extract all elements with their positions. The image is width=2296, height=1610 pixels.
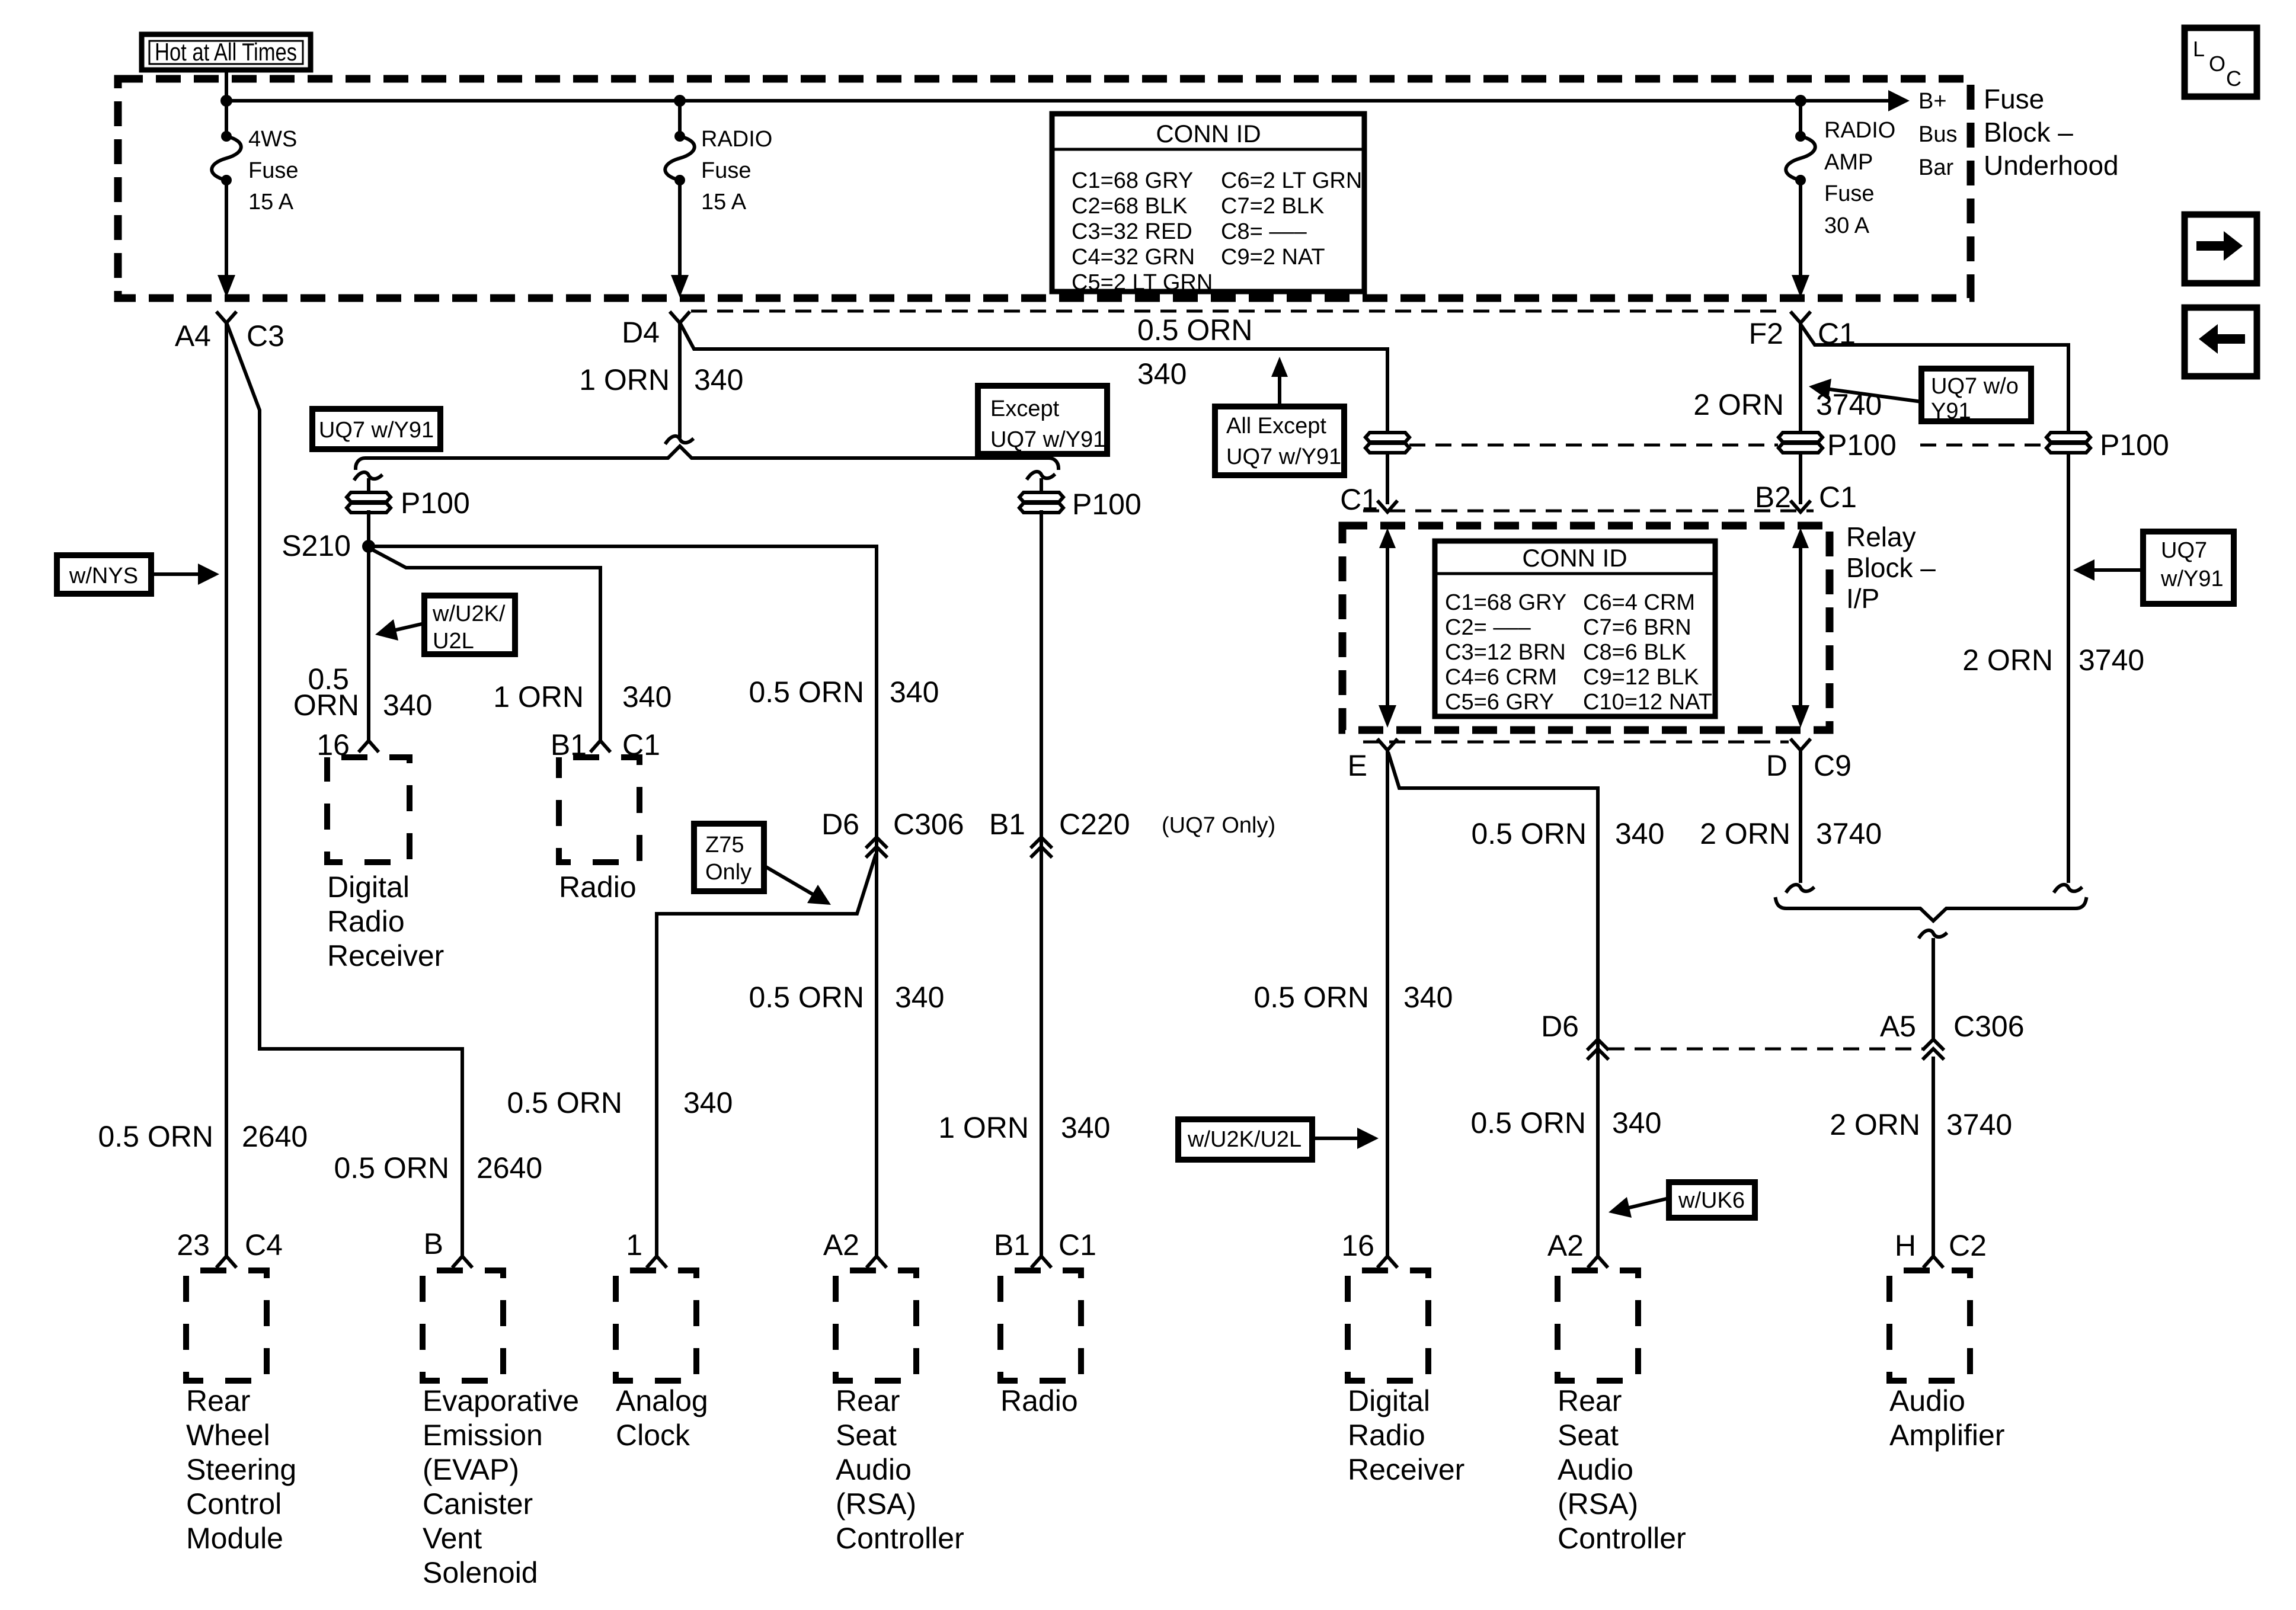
- svg-text:P100: P100: [2100, 428, 2169, 462]
- component Digital Radio Receiver right: [1348, 1270, 1464, 1486]
- label 340 under wire: [1137, 357, 1187, 391]
- left arrow reference box: [2185, 308, 2257, 376]
- svg-text:C7=2 BLK: C7=2 BLK: [1221, 194, 1324, 219]
- connector pin 23 C4 RWS: [177, 1228, 283, 1266]
- connector face line relay bottom: [1363, 741, 1789, 744]
- wire P100 to Radio B1 C220: [1040, 512, 1043, 1255]
- svg-text:D6: D6: [821, 808, 859, 841]
- svg-text:3740: 3740: [1946, 1108, 2012, 1141]
- fuse RADIO 15A: [665, 101, 695, 297]
- option box Except UQ7 w/Y91: [978, 386, 1107, 454]
- svg-text:C9: C9: [1814, 749, 1851, 782]
- svg-text:2 ORN: 2 ORN: [1962, 644, 2053, 677]
- connector P100 grommet mid: [1019, 488, 1141, 521]
- label 1 ORN 340: [579, 363, 743, 396]
- svg-text:C6=4 CRM: C6=4 CRM: [1583, 590, 1695, 615]
- label 0.5 ORN 340 below D6: [749, 981, 944, 1014]
- wire E branch to RSA right 340: [1389, 754, 1598, 1255]
- label 0.5 ORN 340 below D6 right: [1470, 1106, 1661, 1140]
- svg-text:340: 340: [1061, 1111, 1110, 1144]
- connector pin B EVAP: [424, 1227, 471, 1266]
- label 2 ORN 3740 F2: [1693, 388, 1882, 421]
- svg-text:340: 340: [1137, 357, 1187, 391]
- svg-text:C2=68 BLK: C2=68 BLK: [1072, 194, 1187, 219]
- svg-text:0.5 ORN: 0.5 ORN: [1471, 817, 1587, 850]
- svg-text:1 ORN: 1 ORN: [493, 680, 584, 713]
- connector P100 grommet right: [1779, 428, 1897, 462]
- label 4WS Fuse 15 A: [248, 127, 298, 215]
- connector face line fuse block C1: [691, 310, 1785, 313]
- svg-text:Vent: Vent: [423, 1522, 482, 1555]
- svg-text:340: 340: [895, 981, 944, 1014]
- svg-text:C306: C306: [1953, 1010, 2025, 1043]
- svg-text:Except: Except: [990, 396, 1060, 421]
- component Rear Wheel Steering Control Module: [186, 1270, 296, 1555]
- svg-text:P100: P100: [1072, 488, 1141, 521]
- connector pin B1 C1 radio bottom: [994, 1228, 1096, 1266]
- component Evaporative Emission EVAP Canister Vent Solenoid: [423, 1270, 579, 1589]
- label 0.5 ORN 340 above D6: [749, 676, 939, 709]
- svg-text:O: O: [2209, 52, 2225, 76]
- svg-text:C3: C3: [247, 319, 284, 353]
- svg-text:P100: P100: [401, 486, 470, 520]
- node bus junction RADIO: [674, 95, 686, 107]
- svg-text:0.5 ORN: 0.5 ORN: [1253, 981, 1369, 1014]
- option box UQ7 w/Y91 left: [312, 409, 440, 449]
- svg-text:C2: C2: [1949, 1229, 1987, 1262]
- svg-text:Radio: Radio: [559, 870, 637, 904]
- bulkhead dashed link D6 to A5: [1609, 1048, 1923, 1051]
- svg-text:P100: P100: [1827, 428, 1897, 462]
- svg-text:UQ7 w/Y91: UQ7 w/Y91: [319, 418, 434, 443]
- svg-text:A2: A2: [823, 1228, 859, 1262]
- svg-text:1 ORN: 1 ORN: [938, 1111, 1029, 1144]
- option box UQ7 w/o Y91: [1809, 369, 2031, 424]
- svg-text:C4: C4: [245, 1228, 283, 1262]
- connector pin H C2 audio amplifier: [1895, 1229, 1987, 1266]
- svg-text:All Except: All Except: [1226, 414, 1326, 438]
- svg-text:0.5 ORN: 0.5 ORN: [98, 1120, 213, 1153]
- connector P100 grommet far right: [2046, 428, 2169, 462]
- relay block IP dashed box: [1342, 526, 1830, 730]
- splice brace merge: [1776, 899, 2086, 937]
- label 2 ORN 3740 amp: [1830, 1108, 2012, 1141]
- component Rear Seat Audio RSA Controller left: [836, 1270, 964, 1555]
- svg-text:Digital: Digital: [1348, 1384, 1430, 1417]
- svg-text:Module: Module: [186, 1522, 283, 1555]
- CONN ID table fuse block: [1052, 114, 1364, 295]
- svg-text:2 ORN: 2 ORN: [1693, 388, 1784, 421]
- svg-text:(RSA): (RSA): [836, 1487, 916, 1521]
- connector A4 C3: [175, 313, 284, 353]
- connector P100 grommet left: [347, 486, 470, 520]
- fuse block underhood dashed box: [118, 79, 1971, 298]
- svg-text:C220: C220: [1059, 808, 1130, 841]
- label RADIO AMP Fuse 30 A: [1824, 118, 1895, 238]
- svg-text:Audio: Audio: [1889, 1384, 1965, 1417]
- node bus junction RADIO AMP: [1795, 95, 1806, 107]
- wire S210 to Digital Radio Receiver left 340: [367, 546, 370, 740]
- wire F2 branch UQ7 w/Y91: [1802, 326, 2068, 431]
- svg-text:Receiver: Receiver: [1348, 1453, 1464, 1486]
- svg-text:Block –: Block –: [1984, 117, 2073, 148]
- svg-text:C4=6 CRM: C4=6 CRM: [1445, 665, 1557, 690]
- component Rear Seat Audio RSA Controller right: [1558, 1270, 1686, 1555]
- connector E relay: [1348, 740, 1396, 782]
- svg-text:0.5 ORN: 0.5 ORN: [749, 981, 864, 1014]
- wire P100 to relay C1: [1386, 453, 1389, 502]
- svg-text:w/Y91: w/Y91: [2160, 566, 2224, 591]
- svg-text:B: B: [424, 1227, 443, 1260]
- svg-text:2640: 2640: [477, 1151, 542, 1185]
- connector D C9 relay: [1766, 740, 1851, 782]
- svg-text:F2: F2: [1749, 317, 1783, 350]
- svg-text:Receiver: Receiver: [327, 939, 444, 972]
- svg-text:(RSA): (RSA): [1558, 1487, 1638, 1521]
- svg-text:Control: Control: [186, 1487, 282, 1521]
- svg-text:C1: C1: [1819, 481, 1857, 514]
- svg-text:UQ7: UQ7: [2161, 538, 2207, 563]
- svg-text:C5=6 GRY: C5=6 GRY: [1445, 690, 1554, 715]
- wire B+ bus bar: [226, 90, 1910, 111]
- svg-text:A5: A5: [1880, 1010, 1916, 1043]
- splice break P100 feed left: [355, 472, 381, 492]
- wire A4 branch to EVAP: [228, 325, 462, 1255]
- component Audio Amplifier: [1889, 1270, 2004, 1452]
- svg-text:w/NYS: w/NYS: [69, 564, 138, 588]
- svg-text:Analog: Analog: [616, 1384, 708, 1417]
- svg-text:Steering: Steering: [186, 1453, 296, 1486]
- wire E to Digital Radio Receiver right 340: [1386, 750, 1389, 1255]
- connector B1 C220 inline: [989, 808, 1275, 856]
- svg-text:Seat: Seat: [1558, 1419, 1619, 1452]
- option box w/UK6: [1609, 1182, 1755, 1218]
- svg-text:Evaporative: Evaporative: [423, 1384, 579, 1417]
- label Hot at All Times: [142, 34, 311, 70]
- svg-text:Rear: Rear: [836, 1384, 900, 1417]
- svg-text:B2: B2: [1755, 481, 1791, 514]
- svg-text:Digital: Digital: [327, 870, 410, 904]
- connector D6 inline right: [1541, 1010, 1607, 1058]
- svg-text:Fuse: Fuse: [248, 158, 298, 183]
- svg-text:C2= –––: C2= –––: [1445, 615, 1531, 640]
- svg-text:Emission: Emission: [423, 1419, 543, 1452]
- svg-text:Canister: Canister: [423, 1487, 533, 1521]
- wire P100 to B2 C1: [1799, 453, 1802, 502]
- svg-text:Amplifier: Amplifier: [1889, 1419, 2004, 1452]
- svg-text:23: 23: [177, 1228, 210, 1262]
- svg-text:D: D: [1766, 749, 1787, 782]
- svg-text:B+: B+: [1918, 89, 1947, 114]
- CONN ID table relay block: [1435, 541, 1715, 716]
- component Analog Clock: [616, 1270, 708, 1452]
- svg-text:340: 340: [683, 1086, 733, 1119]
- svg-text:0.5 ORN: 0.5 ORN: [1470, 1106, 1586, 1140]
- connector B2 C1 relay: [1755, 481, 1857, 514]
- svg-text:UQ7 w/o: UQ7 w/o: [1931, 374, 2019, 399]
- LOC reference box: [2185, 28, 2257, 97]
- connector pin A2 RSA left: [823, 1228, 885, 1266]
- svg-text:AMP: AMP: [1824, 150, 1873, 175]
- svg-text:30 A: 30 A: [1824, 213, 1870, 238]
- svg-text:C6=2 LT GRN: C6=2 LT GRN: [1221, 168, 1362, 193]
- label RADIO Fuse 15 A: [701, 127, 772, 215]
- component Radio mid: [559, 757, 639, 904]
- svg-text:C3=12 BRN: C3=12 BRN: [1445, 640, 1566, 665]
- label B+ Bus Bar: [1918, 89, 1957, 180]
- svg-text:Y91: Y91: [1931, 399, 1971, 424]
- svg-text:2640: 2640: [242, 1120, 308, 1153]
- wire relay internal left: [1379, 528, 1396, 728]
- svg-text:Fuse: Fuse: [1824, 181, 1874, 206]
- svg-text:E: E: [1348, 749, 1367, 782]
- svg-text:U2L: U2L: [433, 629, 474, 654]
- svg-text:C1: C1: [1059, 1228, 1096, 1262]
- label 0.5 ORN over wire: [1137, 313, 1253, 347]
- svg-text:0.5 ORN: 0.5 ORN: [507, 1086, 622, 1119]
- svg-text:Radio: Radio: [1348, 1419, 1425, 1452]
- svg-text:H: H: [1895, 1229, 1916, 1262]
- svg-text:RADIO: RADIO: [701, 127, 772, 152]
- label 0.5 ORN 2640 left: [98, 1120, 308, 1153]
- wire F2 to P100 2 ORN 3740: [1799, 323, 1802, 431]
- svg-text:0.5 ORN: 0.5 ORN: [334, 1151, 449, 1185]
- svg-text:w/UK6: w/UK6: [1678, 1188, 1745, 1213]
- svg-text:Rear: Rear: [186, 1384, 250, 1417]
- label 2 ORN 3740 D C9: [1700, 817, 1882, 850]
- svg-text:340: 340: [694, 363, 743, 396]
- svg-text:RADIO: RADIO: [1824, 118, 1895, 143]
- bulkhead dashed link P100 row: [1409, 444, 2046, 447]
- svg-text:C8= –––: C8= –––: [1221, 219, 1307, 244]
- wire P100 to brace right: [2055, 453, 2081, 891]
- svg-text:2 ORN: 2 ORN: [1700, 817, 1790, 850]
- label 1 ORN 340 radio bottom: [938, 1111, 1110, 1144]
- label 0.5 ORN 340 clock: [507, 1086, 733, 1119]
- splice break P100 feed mid: [1028, 472, 1054, 492]
- svg-text:340: 340: [1403, 981, 1453, 1014]
- connector D4: [622, 313, 689, 349]
- svg-text:(UQ7 Only): (UQ7 Only): [1162, 813, 1275, 838]
- svg-text:CONN ID: CONN ID: [1522, 544, 1627, 572]
- svg-text:C9=2 NAT: C9=2 NAT: [1221, 245, 1325, 270]
- option box UQ7 w/Y91 right: [2073, 532, 2234, 604]
- option box w/NYS: [57, 555, 219, 594]
- fuse RADIO AMP 30A: [1786, 101, 1815, 297]
- svg-text:C4=32 GRN: C4=32 GRN: [1072, 245, 1195, 270]
- connector D6 C306 inline: [821, 808, 964, 856]
- svg-text:2 ORN: 2 ORN: [1830, 1108, 1920, 1141]
- wire D4 to P100 0.5 ORN 340: [681, 325, 1387, 431]
- svg-text:B1: B1: [989, 808, 1025, 841]
- connector pin A2 RSA right: [1547, 1229, 1607, 1266]
- svg-text:340: 340: [1612, 1106, 1661, 1140]
- svg-text:UQ7 w/Y91: UQ7 w/Y91: [990, 427, 1105, 452]
- svg-text:C7=6 BRN: C7=6 BRN: [1583, 615, 1691, 640]
- label Relay Block - I/P: [1846, 521, 1936, 614]
- svg-text:16: 16: [1341, 1229, 1374, 1262]
- wire UQ7 w/Y91 splice bracket: [356, 446, 1059, 468]
- svg-text:ORN: ORN: [293, 689, 359, 722]
- svg-text:C10=12 NAT: C10=12 NAT: [1583, 690, 1712, 715]
- svg-text:Radio: Radio: [1000, 1384, 1078, 1417]
- svg-text:C5=2 LT GRN: C5=2 LT GRN: [1072, 270, 1213, 295]
- wire hot feed stub: [225, 70, 228, 101]
- svg-text:w/U2K/: w/U2K/: [432, 601, 506, 626]
- svg-text:Seat: Seat: [836, 1419, 897, 1452]
- svg-text:340: 340: [383, 689, 432, 722]
- right arrow reference box: [2185, 215, 2257, 283]
- option box w/U2K/U2L bottom: [1178, 1119, 1379, 1160]
- svg-text:Only: Only: [705, 860, 752, 885]
- svg-text:Solenoid: Solenoid: [423, 1556, 538, 1589]
- svg-text:Radio: Radio: [327, 905, 405, 938]
- label 0.5 ORN 340 DRR right: [1253, 981, 1453, 1014]
- svg-text:A2: A2: [1547, 1229, 1584, 1262]
- svg-text:Bar: Bar: [1918, 155, 1953, 180]
- label 0.5 ORN 340 S210 drop: [293, 662, 433, 722]
- label 1 ORN 340 radio mid: [493, 680, 671, 713]
- component Digital Radio Receiver left: [327, 757, 444, 972]
- connector P100 grommet all-except: [1366, 433, 1409, 453]
- wire A4 to Rear Wheel Steering 2640: [225, 323, 228, 1255]
- option box w/U2K/U2L left: [375, 596, 515, 654]
- connector A5 C306 inline: [1880, 1010, 2025, 1058]
- svg-text:Controller: Controller: [1558, 1522, 1686, 1555]
- connector pin B1 C1 radio mid: [551, 728, 660, 761]
- fuse 4WS 15A: [212, 101, 241, 297]
- connector pin 16 DRR right: [1341, 1229, 1396, 1266]
- svg-text:Controller: Controller: [836, 1522, 964, 1555]
- svg-text:w/U2K/U2L: w/U2K/U2L: [1187, 1127, 1302, 1152]
- svg-text:C: C: [2226, 66, 2241, 91]
- connector C1 relay left: [1340, 483, 1396, 516]
- svg-text:Wheel: Wheel: [186, 1419, 270, 1452]
- svg-text:340: 340: [1615, 817, 1664, 850]
- svg-text:Hot at All Times: Hot at All Times: [155, 38, 297, 66]
- svg-text:1 ORN: 1 ORN: [579, 363, 670, 396]
- svg-text:C1=68 GRY: C1=68 GRY: [1072, 168, 1193, 193]
- svg-text:340: 340: [622, 680, 671, 713]
- svg-text:4WS: 4WS: [248, 127, 297, 152]
- svg-text:CONN ID: CONN ID: [1156, 120, 1261, 148]
- svg-text:0.5 ORN: 0.5 ORN: [749, 676, 864, 709]
- label 2 ORN 3740 right branch: [1962, 644, 2144, 677]
- svg-text:Z75: Z75: [705, 833, 744, 857]
- svg-text:Underhood: Underhood: [1984, 150, 2119, 181]
- svg-text:C306: C306: [893, 808, 964, 841]
- svg-text:D4: D4: [622, 316, 660, 349]
- option box Z75 Only: [694, 824, 831, 905]
- option box All Except UQ7 w/Y91: [1215, 357, 1344, 475]
- svg-text:(EVAP): (EVAP): [423, 1453, 519, 1486]
- svg-text:Audio: Audio: [836, 1453, 912, 1486]
- svg-text:C1=68 GRY: C1=68 GRY: [1445, 590, 1566, 615]
- svg-text:3740: 3740: [1816, 817, 1882, 850]
- wire D4 stub 1 ORN 340: [666, 323, 692, 443]
- svg-text:Clock: Clock: [616, 1419, 690, 1452]
- svg-text:A4: A4: [175, 319, 211, 353]
- svg-text:15 A: 15 A: [248, 190, 294, 215]
- svg-text:15 A: 15 A: [701, 190, 747, 215]
- node bus junction 4WS: [220, 95, 232, 107]
- svg-text:Fuse: Fuse: [701, 158, 751, 183]
- label Fuse Block - Underhood: [1984, 84, 2119, 181]
- node splice S210: [282, 529, 375, 562]
- wire S210 to D6 C306 0.5 ORN 340: [375, 546, 877, 1255]
- wire P100 to S210: [367, 512, 370, 540]
- svg-text:S210: S210: [282, 529, 351, 562]
- svg-text:0.5 ORN: 0.5 ORN: [1137, 313, 1253, 347]
- svg-text:UQ7 w/Y91: UQ7 w/Y91: [1226, 444, 1341, 469]
- svg-text:340: 340: [890, 676, 939, 709]
- wire Z75 branch to Analog Clock 340: [657, 856, 875, 1255]
- svg-text:Rear: Rear: [1558, 1384, 1622, 1417]
- svg-text:I/P: I/P: [1846, 583, 1879, 614]
- svg-text:1: 1: [626, 1228, 642, 1262]
- svg-text:D6: D6: [1541, 1010, 1579, 1043]
- svg-text:C3=32 RED: C3=32 RED: [1072, 219, 1192, 244]
- svg-text:B1: B1: [994, 1228, 1030, 1262]
- connector pin 1 analog clock: [626, 1228, 666, 1266]
- svg-text:Bus: Bus: [1918, 122, 1957, 147]
- svg-text:C9=12 BLK: C9=12 BLK: [1583, 665, 1699, 690]
- wire A5 to Audio Amplifier 3740: [1932, 1058, 1935, 1255]
- component Radio bottom: [1000, 1270, 1081, 1417]
- wire S210 to Radio B1 1 ORN 340: [372, 549, 600, 740]
- connector face line relay C1: [1363, 510, 1814, 513]
- svg-text:C8=6 BLK: C8=6 BLK: [1583, 640, 1686, 665]
- svg-text:L: L: [2193, 37, 2205, 61]
- wire brace to A5 C306: [1932, 940, 1935, 1038]
- wire relay internal right: [1792, 528, 1809, 728]
- svg-text:Block –: Block –: [1846, 552, 1936, 583]
- connector F2 C1: [1749, 313, 1856, 350]
- label 0.5 ORN 340 above D6 right: [1471, 817, 1664, 850]
- label 0.5 ORN 2640 branch: [334, 1151, 542, 1185]
- svg-text:Fuse: Fuse: [1984, 84, 2044, 114]
- svg-text:Relay: Relay: [1846, 521, 1916, 552]
- svg-text:Audio: Audio: [1558, 1453, 1633, 1486]
- wire D C9 to brace 3740: [1787, 750, 1813, 891]
- connector pin 16 DRR left: [316, 728, 378, 761]
- svg-text:3740: 3740: [2078, 644, 2144, 677]
